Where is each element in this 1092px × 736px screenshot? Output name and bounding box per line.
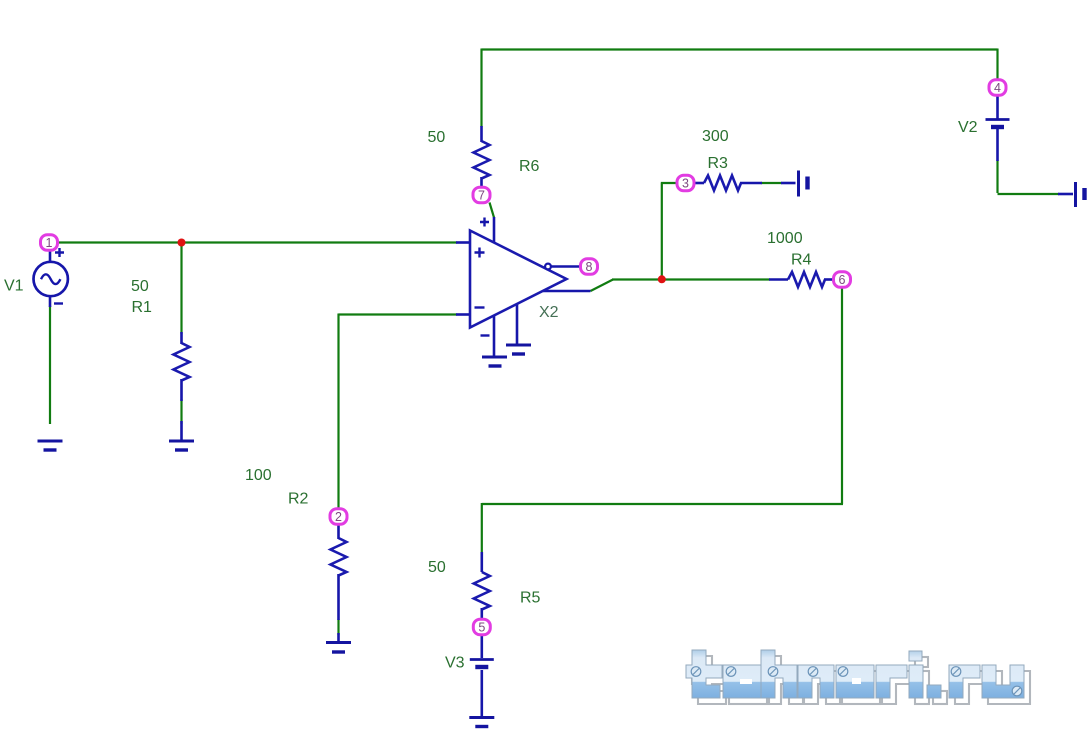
svg-text:V1: V1 [4, 278, 24, 295]
svg-text:X2: X2 [539, 304, 559, 321]
svg-text:R2: R2 [288, 491, 309, 508]
svg-text:R1: R1 [132, 299, 153, 316]
svg-text:4: 4 [994, 81, 1001, 95]
svg-text:3: 3 [682, 177, 689, 191]
svg-text:8: 8 [586, 260, 593, 274]
svg-text:R4: R4 [791, 252, 812, 269]
svg-text:100: 100 [245, 467, 272, 484]
svg-text:7: 7 [478, 189, 485, 203]
svg-text:R3: R3 [708, 155, 729, 172]
svg-text:50: 50 [428, 129, 446, 146]
svg-text:V2: V2 [958, 119, 978, 136]
svg-text:V3: V3 [445, 655, 465, 672]
svg-text:50: 50 [131, 278, 149, 295]
svg-text:1000: 1000 [767, 230, 803, 247]
svg-text:R6: R6 [519, 158, 540, 175]
svg-text:50: 50 [428, 559, 446, 576]
svg-text:R5: R5 [520, 590, 541, 607]
svg-text:5: 5 [478, 621, 485, 635]
svg-text:6: 6 [839, 273, 846, 287]
svg-text:2: 2 [335, 510, 342, 524]
svg-text:300: 300 [702, 128, 729, 145]
svg-text:1: 1 [46, 236, 53, 250]
